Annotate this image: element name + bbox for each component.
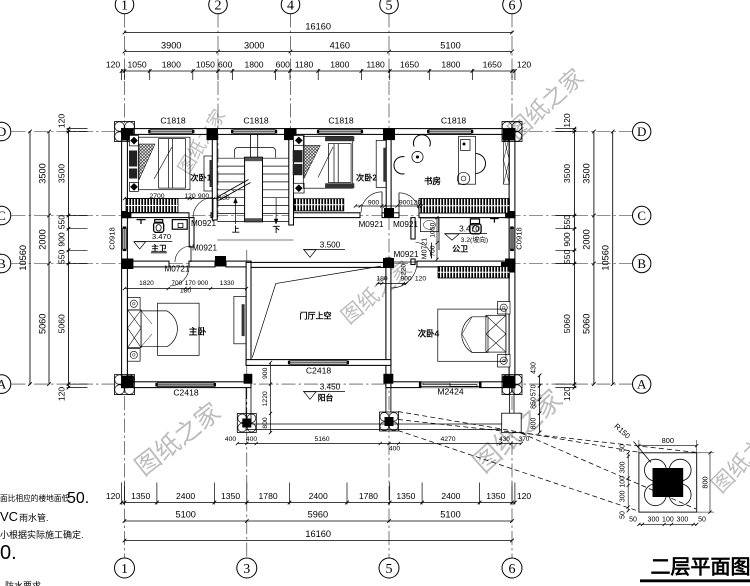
svg-text:800: 800 (701, 476, 710, 488)
svg-text:5100: 5100 (175, 510, 195, 520)
dim col public-toilet (1050/700/220) (436, 218, 438, 260)
svg-text:180: 180 (218, 195, 230, 202)
svg-text:120: 120 (106, 60, 121, 70)
bed master-bedroom (128, 297, 200, 361)
svg-text:主卫: 主卫 (151, 243, 167, 253)
wall public-toilet divider (438, 218, 440, 250)
svg-text:5: 5 (386, 0, 393, 14)
window C2418 master-bedroom (bottom wall) (157, 383, 215, 387)
svg-text:5060: 5060 (57, 314, 67, 333)
projection dashed line 2 (398, 420, 696, 453)
svg-text:C1818: C1818 (160, 116, 186, 126)
level mark 3.470/3.2 public-toilet (444, 233, 487, 235)
wall public-toilet left (411, 218, 415, 239)
svg-text:4: 4 (287, 0, 294, 14)
stairs (flights, core, break line, arrows) (245, 157, 263, 222)
column (6,D) decorative (502, 122, 522, 142)
wall C-row jamb at axis5 (382, 213, 399, 218)
grid bubble C left (0, 206, 11, 225)
column (1,A) decorative (115, 375, 135, 395)
dimension row bottom detailed (122, 502, 515, 504)
grid bubble 3 bottom (237, 558, 257, 578)
wall public-toilet left lower (411, 259, 415, 265)
svg-text:C1818: C1818 (441, 116, 467, 126)
wall C-row under study / toilet top (419, 213, 515, 218)
svg-text:570: 570 (531, 384, 538, 396)
svg-text:370: 370 (519, 436, 530, 443)
bed bedroom4 (438, 302, 510, 368)
svg-text:1050: 1050 (128, 60, 147, 70)
dimension row bottom 5100/5960/5100 (125, 520, 513, 522)
svg-text:A: A (0, 377, 7, 392)
svg-text:3.470: 3.470 (459, 224, 480, 234)
dimension col right detailed (573, 129, 575, 388)
svg-text:550: 550 (57, 215, 67, 230)
window C0918 right wall (510, 228, 514, 250)
svg-text:M0721: M0721 (422, 238, 429, 260)
detail dimensions (620, 436, 715, 526)
svg-text:550: 550 (562, 215, 572, 230)
svg-text:3.450: 3.450 (320, 383, 341, 392)
desk bedroom2 (right wall) (376, 140, 386, 187)
wall master-bath right (189, 218, 194, 247)
grid bubble D left (0, 122, 11, 141)
window C2418 foyer (bottom wall) (289, 361, 347, 365)
svg-text:700: 700 (430, 245, 437, 257)
svg-text:6: 6 (509, 562, 516, 577)
column (6,B) (505, 259, 515, 270)
grid bubble 5 top (380, 0, 399, 14)
svg-text:5960: 5960 (308, 510, 328, 520)
axis line D horizontal (12, 131, 633, 133)
column foyer top-right (383, 258, 394, 268)
svg-text:800: 800 (531, 418, 538, 430)
svg-text:M0921: M0921 (393, 220, 418, 229)
wall axis5 bedroom2/study (386, 134, 391, 212)
svg-text:C1818: C1818 (328, 116, 354, 126)
svg-text:10560: 10560 (18, 245, 28, 271)
svg-text:170: 170 (185, 280, 196, 287)
svg-text:2400: 2400 (309, 491, 328, 501)
dimension col right 430/570/850/800 (539, 375, 541, 432)
wall B-row toilet bottom (417, 261, 515, 267)
svg-text:防水要求: 防水要求 (5, 580, 41, 586)
column (5,C) jamb (384, 208, 394, 218)
svg-text:5: 5 (386, 562, 393, 577)
svg-text:900: 900 (399, 199, 411, 206)
column (4,D) (284, 128, 297, 140)
svg-text:900: 900 (562, 232, 572, 247)
svg-text:400: 400 (389, 446, 401, 453)
grid bubble 1 top (115, 0, 134, 14)
bed bedroom2 (293, 136, 355, 194)
svg-text:800: 800 (262, 417, 269, 429)
svg-text:B: B (0, 256, 6, 271)
svg-text:C0918: C0918 (108, 227, 117, 249)
grid bubble A right (633, 375, 651, 393)
desk master-bedroom (foyer wall) (234, 296, 246, 343)
svg-text:100: 100 (620, 476, 627, 488)
svg-text:C0918: C0918 (515, 227, 524, 249)
level mark 3.450 balcony (303, 391, 345, 393)
balcony railing right (508, 388, 510, 414)
svg-text:1350: 1350 (396, 491, 415, 501)
wall B-row left of door (122, 261, 169, 267)
column (6,A) decorative (502, 375, 522, 395)
door M0921 study (399, 193, 419, 213)
svg-text:50.: 50. (67, 490, 89, 507)
axis line grid-2 vertical (217, 14, 219, 218)
svg-text:1780: 1780 (259, 491, 278, 501)
notes left margin (clipped) (0, 490, 89, 586)
door M0921 bedroom2 (361, 192, 382, 213)
svg-text:800: 800 (662, 436, 674, 445)
svg-text:雨水管.: 雨水管. (19, 512, 49, 523)
door M0921 master-bath (175, 246, 191, 262)
svg-text:5100: 5100 (440, 41, 460, 51)
svg-text:M2424: M2424 (437, 387, 463, 397)
svg-text:1050: 1050 (196, 60, 215, 70)
svg-text:M0921: M0921 (191, 219, 216, 228)
column corridor (at foyer corner) (215, 256, 226, 267)
svg-text:120: 120 (562, 113, 572, 128)
svg-text:面比相应的楼地面低: 面比相应的楼地面低 (0, 493, 70, 503)
wall C-row under bedroom1 (122, 213, 189, 218)
svg-text:430: 430 (499, 436, 510, 443)
svg-text:600: 600 (218, 60, 233, 70)
svg-text:3500: 3500 (38, 163, 48, 183)
grid bubble B right (633, 254, 651, 272)
svg-text:次卧4: 次卧4 (418, 329, 440, 339)
svg-text:M0921: M0921 (358, 220, 383, 229)
svg-text:1220: 1220 (262, 391, 269, 406)
wall exterior left (axis 1) (122, 129, 128, 388)
public-toilet fixtures (420, 218, 498, 234)
door M2424 bedroom4 (4-panel) (421, 382, 479, 388)
svg-text:6: 6 (509, 0, 516, 14)
svg-text:400: 400 (225, 436, 237, 443)
wall foyer top (251, 262, 386, 267)
svg-text:1650: 1650 (400, 60, 419, 70)
grid bubble 6 top (503, 0, 522, 14)
svg-text:3.500: 3.500 (320, 241, 341, 250)
window C1818 bedroom2 (top wall) (318, 130, 361, 134)
wall exterior right (axis 6) (509, 129, 515, 388)
wardrobe bedroom4 (438, 267, 509, 279)
svg-text:1800: 1800 (244, 60, 263, 70)
dimension row bottom 16160 (125, 540, 513, 542)
column (1,B) (122, 259, 134, 270)
svg-text:120: 120 (57, 387, 67, 402)
svg-text:220: 220 (401, 264, 408, 276)
svg-text:公卫: 公卫 (452, 245, 468, 254)
svg-text:180: 180 (180, 287, 192, 294)
svg-text:5160: 5160 (314, 436, 329, 443)
svg-text:1330: 1330 (220, 280, 235, 287)
column (5,D) (383, 128, 395, 140)
svg-text:300: 300 (648, 517, 660, 524)
grid bubble 6 bottom (502, 558, 522, 578)
desk bedroom1 (right wall) (204, 156, 212, 191)
wall C-row corridor-to-bedroom2 (211, 213, 217, 218)
grid bubble B left (0, 254, 11, 273)
svg-text:次卧2: 次卧2 (356, 173, 377, 183)
svg-text:1350: 1350 (486, 491, 505, 501)
svg-text:1: 1 (121, 0, 128, 14)
column (6,C) (505, 211, 515, 218)
wardrobe bedroom1 (126, 199, 178, 213)
wall foyer bottom (246, 360, 391, 366)
svg-text:3900: 3900 (161, 41, 181, 51)
svg-text:2000: 2000 (38, 229, 48, 249)
svg-text:50: 50 (620, 511, 627, 519)
dim row bedroom2/study doors (900/120) (355, 205, 421, 207)
column foyer bottom-right (383, 374, 393, 384)
svg-text:3500: 3500 (582, 163, 592, 183)
svg-text:2000: 2000 (582, 229, 592, 249)
grid bubble C right (633, 206, 651, 224)
balcony railing bottom (246, 423, 515, 425)
svg-text:次卧1: 次卧1 (190, 173, 211, 183)
wall C-row mid (bedroom2 front) (294, 213, 361, 218)
axis line B horizontal (12, 263, 633, 265)
dimension col left detailed (68, 129, 70, 388)
dimension col right 3500/2000/5060 (593, 132, 595, 385)
svg-text:4160: 4160 (330, 41, 350, 51)
svg-text:1820: 1820 (139, 280, 154, 287)
svg-text:550: 550 (562, 250, 572, 265)
svg-text:3: 3 (243, 562, 250, 577)
svg-text:1350: 1350 (131, 491, 150, 501)
column public-toilet SE corner (501, 262, 515, 273)
dim row bedroom1 (2700/120/900/180) (125, 198, 219, 200)
window C0918 left wall (123, 228, 127, 250)
svg-text:3.2(坡向): 3.2(坡向) (461, 235, 489, 244)
wall exterior top (axis D) (122, 129, 515, 135)
svg-text:180: 180 (376, 276, 388, 283)
level mark 3.500 corridor (303, 249, 345, 251)
svg-text:700: 700 (171, 280, 182, 287)
svg-text:1800: 1800 (162, 60, 181, 70)
svg-text:50: 50 (620, 444, 627, 452)
svg-text:900: 900 (400, 276, 412, 283)
dim row corridor (1820/700/170/900/1330) (125, 288, 247, 290)
svg-text:小根据实际施工确定.: 小根据实际施工确定. (0, 529, 84, 540)
balcony railing left (245, 388, 247, 430)
svg-text:D: D (0, 124, 6, 139)
dim col balcony left (900/1220/800) (270, 363, 272, 433)
svg-text:A: A (637, 377, 647, 392)
column (1,D) decorative (115, 122, 135, 142)
axis line C horizontal (12, 215, 633, 217)
svg-text:1350: 1350 (221, 491, 240, 501)
projection dashed line 1 (398, 412, 639, 453)
grid bubble A left (0, 375, 11, 394)
wall bottom bedroom4 (axis A) (386, 382, 515, 388)
svg-text:120: 120 (410, 199, 422, 206)
svg-text:120: 120 (517, 60, 532, 70)
svg-text:3.470: 3.470 (152, 232, 171, 241)
svg-text:2400: 2400 (176, 491, 195, 501)
svg-text:1180: 1180 (295, 60, 314, 70)
axis line grid-3 vertical (246, 250, 248, 558)
detail column section (639, 453, 697, 512)
svg-text:900: 900 (262, 367, 269, 379)
svg-text:1180: 1180 (366, 60, 385, 70)
wardrobe bedroom2 (294, 199, 344, 211)
dimension col left 10560 (29, 132, 31, 385)
svg-text:3500: 3500 (57, 164, 67, 183)
wall stairwell left (212, 134, 217, 220)
svg-text:2700: 2700 (149, 193, 164, 200)
axis line grid-5 vertical (388, 14, 390, 559)
svg-text:VC: VC (0, 509, 18, 524)
svg-text:C2418: C2418 (173, 388, 199, 398)
door M0721 public-toilet (416, 243, 432, 259)
wall foyer left / master-bedroom right (246, 262, 251, 365)
svg-text:900: 900 (197, 280, 208, 287)
svg-text:850: 850 (531, 397, 538, 409)
door M0721 master-bath-to-bedroom (170, 267, 189, 286)
column (2,D) (207, 128, 219, 140)
svg-text:120: 120 (562, 387, 572, 402)
projection dashed line 3 (398, 431, 639, 512)
svg-text:C: C (0, 208, 6, 223)
svg-text:C1818: C1818 (243, 116, 269, 126)
svg-text:120: 120 (517, 491, 532, 501)
svg-text:430: 430 (531, 362, 538, 374)
foyer void diagonal lines (252, 266, 381, 357)
dimension row top 16160 (125, 32, 513, 34)
study desk and chairs (394, 135, 486, 185)
grid bubble 2 top (209, 0, 228, 14)
grid bubble D right (633, 122, 651, 140)
svg-text:5100: 5100 (440, 510, 460, 520)
dim row bedroom4 door (180/900/120) (378, 283, 407, 285)
closet corridor (study front) (419, 199, 509, 214)
balcony column left (237, 414, 256, 433)
axis line grid-4 vertical (290, 14, 292, 225)
svg-text:3000: 3000 (244, 41, 264, 51)
svg-text:1800: 1800 (330, 60, 349, 70)
detail leader R150 (634, 442, 652, 463)
svg-text:1650: 1650 (483, 60, 502, 70)
axis line grid-6 vertical (511, 14, 513, 559)
svg-text:300: 300 (620, 461, 627, 473)
dimension row top 3900/3000/4160/5100 (125, 51, 513, 53)
cabinet study right wall (504, 136, 510, 184)
svg-text:120: 120 (184, 193, 196, 200)
grid bubble 5 bottom (379, 558, 399, 578)
svg-text:上: 上 (232, 224, 240, 234)
svg-text:M0921: M0921 (192, 244, 217, 253)
axis line A horizontal (12, 383, 633, 385)
svg-text:400: 400 (246, 436, 258, 443)
svg-text:阳台: 阳台 (318, 393, 334, 403)
grid bubble 1 bottom (115, 558, 135, 578)
door M0921 bedroom4 top (391, 262, 417, 288)
wall foyer right / bedroom4 left (386, 258, 391, 388)
wall bottom master-bedroom (axis A) (122, 382, 251, 388)
svg-text:C2418: C2418 (306, 366, 332, 376)
svg-text:50: 50 (629, 517, 637, 524)
svg-text:M0721: M0721 (164, 265, 189, 274)
svg-text:300: 300 (677, 517, 689, 524)
svg-text:600: 600 (276, 60, 291, 70)
svg-text:下: 下 (273, 225, 281, 234)
dimension row top detailed (122, 70, 515, 72)
svg-text:10560: 10560 (601, 245, 611, 271)
svg-text:3500: 3500 (562, 164, 572, 183)
dimension col right 10560 (612, 132, 614, 385)
balcony column right (plain, see detail) (502, 413, 522, 433)
svg-text:16160: 16160 (305, 529, 331, 539)
svg-text:B: B (637, 256, 646, 271)
door M0921 bedroom1 (193, 198, 213, 218)
svg-text:1050: 1050 (430, 222, 437, 237)
svg-text:900: 900 (368, 199, 380, 206)
dim row balcony bottom (400/400/5160/400/4270/430/370) (237, 443, 521, 445)
svg-text:5060: 5060 (582, 314, 592, 334)
svg-text:二层平面图: 二层平面图 (651, 556, 750, 579)
svg-text:120: 120 (106, 491, 121, 501)
svg-text:D: D (637, 124, 646, 139)
balcony column middle (380, 412, 399, 431)
wall B-row master-bath to column (189, 261, 215, 267)
svg-text:2: 2 (215, 0, 222, 14)
svg-text:120: 120 (57, 114, 67, 129)
svg-text:1: 1 (121, 562, 128, 577)
svg-text:5060: 5060 (562, 314, 572, 333)
svg-text:900: 900 (57, 232, 67, 247)
svg-text:550: 550 (57, 250, 67, 265)
level mark 3.470 master-bath (134, 241, 172, 243)
wall stub above balcony column (axis 5) (385, 388, 387, 412)
svg-text:5060: 5060 (38, 314, 48, 334)
window C1818 bedroom1 (top wall) (150, 130, 193, 134)
dimension col left 3500/2000/5060 (48, 132, 50, 385)
svg-text:900: 900 (198, 193, 210, 200)
svg-text:2400: 2400 (441, 491, 460, 501)
wall B-row column to foyer (226, 261, 251, 267)
master-bath fixtures (toilet, basin, shower) (137, 220, 188, 233)
svg-text:16160: 16160 (305, 22, 331, 32)
svg-text:书房: 书房 (424, 176, 441, 186)
svg-text:120: 120 (415, 276, 427, 283)
svg-text:M0921: M0921 (393, 250, 418, 259)
svg-text:1800: 1800 (441, 60, 460, 70)
svg-text:1780: 1780 (359, 491, 378, 501)
svg-text:0.: 0. (0, 542, 17, 564)
column foyer bottom-left (244, 374, 253, 384)
grid bubble 4 top (281, 0, 300, 14)
window C1818 stairwell (top wall) (233, 130, 276, 134)
svg-text:50: 50 (698, 517, 706, 524)
svg-text:300: 300 (620, 490, 627, 502)
bed bedroom1 (129, 135, 190, 191)
wall stairwell right (289, 134, 294, 225)
window C1818 study (top wall) (429, 130, 472, 134)
svg-text:门厅上空: 门厅上空 (300, 311, 332, 321)
svg-text:100: 100 (662, 517, 674, 524)
svg-text:4270: 4270 (440, 436, 455, 443)
svg-text:C: C (637, 208, 646, 223)
axis line grid-1 vertical (124, 14, 126, 559)
projection dashed line 4 (521, 433, 696, 509)
column (1,C) (122, 211, 132, 218)
svg-text:主卧: 主卧 (189, 326, 207, 337)
